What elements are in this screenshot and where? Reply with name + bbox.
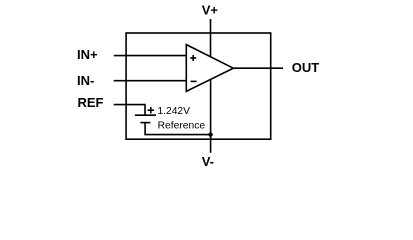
wire battery return to V- rail xyxy=(145,123,211,135)
svg-text:Reference: Reference xyxy=(158,120,206,131)
svg-text:OUT: OUT xyxy=(292,60,320,75)
wire V+ supply xyxy=(210,19,212,57)
battery plus polarity marker xyxy=(148,107,154,113)
wire IN+ input xyxy=(114,55,187,57)
op-amp plus input marker xyxy=(190,55,196,61)
svg-text:V-: V- xyxy=(202,154,214,169)
junction dot node V- xyxy=(208,132,212,136)
reference source battery plate positive xyxy=(135,114,156,116)
IC boundary box xyxy=(126,33,271,139)
reference source battery plate negative xyxy=(140,122,150,124)
svg-text:REF: REF xyxy=(78,95,104,110)
op-amp U1 xyxy=(186,45,233,92)
svg-text:IN-: IN- xyxy=(77,73,94,88)
wire V- supply xyxy=(210,79,212,152)
svg-text:IN+: IN+ xyxy=(77,47,98,62)
wire REF input xyxy=(114,105,145,116)
op-amp minus input marker xyxy=(191,80,197,82)
svg-text:V+: V+ xyxy=(202,2,219,17)
wire OUT output xyxy=(233,67,283,69)
wire IN- input xyxy=(114,80,187,82)
svg-text:1.242V: 1.242V xyxy=(157,106,190,117)
